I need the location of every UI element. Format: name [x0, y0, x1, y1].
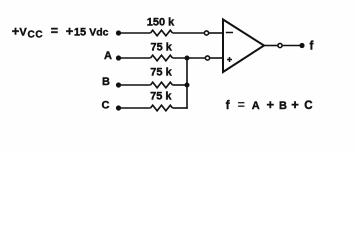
- svg-text:B: B: [102, 76, 110, 88]
- svg-text:+15: +15: [66, 23, 86, 38]
- svg-text:75 k: 75 k: [150, 91, 172, 103]
- svg-text:75 k: 75 k: [150, 42, 172, 54]
- svg-text:=: =: [51, 24, 58, 38]
- svg-text:150 k: 150 k: [147, 16, 175, 28]
- svg-text:f: f: [310, 41, 314, 53]
- svg-text:+V: +V: [12, 23, 28, 38]
- svg-text:Vdc: Vdc: [89, 26, 108, 38]
- svg-text:A: A: [104, 50, 112, 62]
- svg-text:CC: CC: [28, 29, 44, 40]
- svg-text:C: C: [102, 100, 110, 112]
- svg-text:f=A+B+C: f=A+B+C: [226, 97, 313, 112]
- svg-text:75 k: 75 k: [150, 66, 172, 78]
